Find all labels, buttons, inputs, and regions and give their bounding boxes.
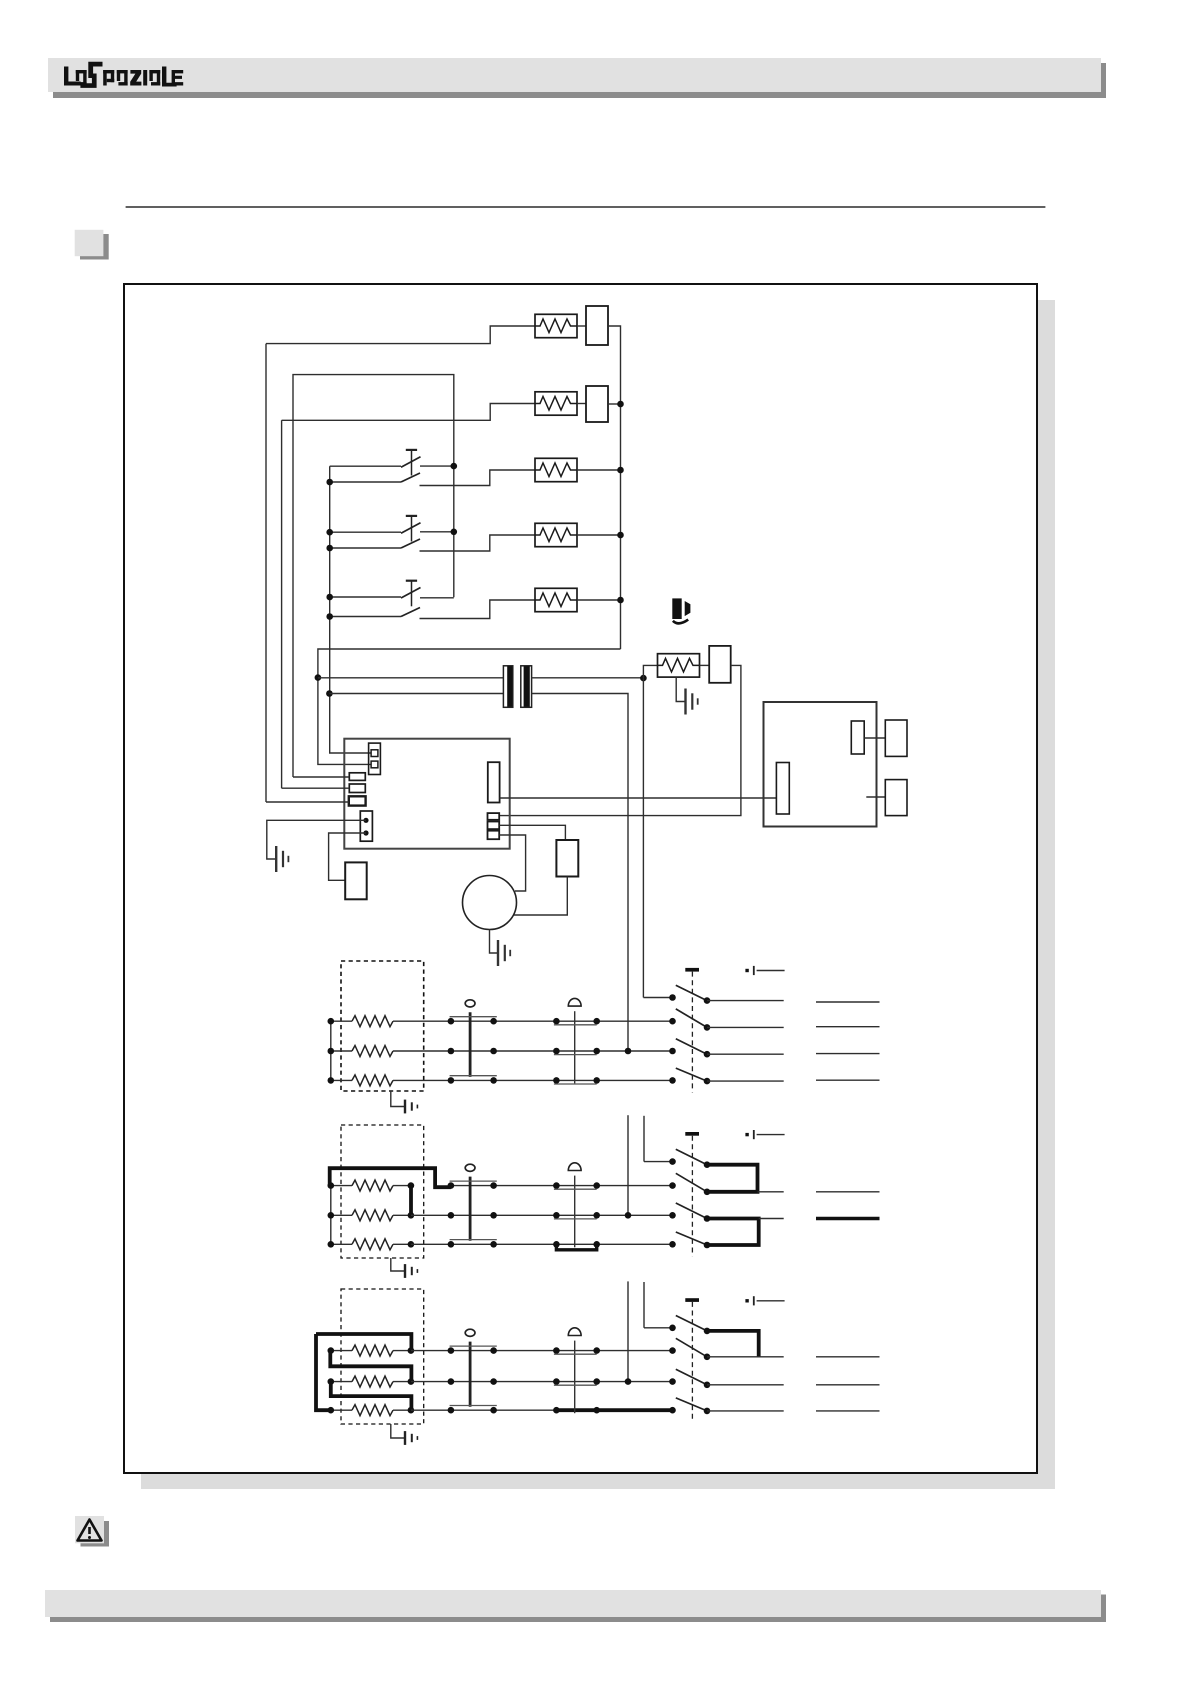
thermostat S3 <box>406 580 417 582</box>
contactor pole 0 G2 <box>669 1158 676 1165</box>
wire feeder-L G2 <box>643 1116 645 1162</box>
contactor pole 3 G3 <box>669 1407 676 1414</box>
wire K2 to ground <box>267 820 366 859</box>
bold row3 G3 <box>556 1408 672 1412</box>
node bus-R5 <box>617 597 624 604</box>
heater dashed box G1 <box>341 961 424 1091</box>
resistor G3-E3 <box>331 1409 352 1411</box>
node G1-E2 left <box>328 1048 335 1055</box>
capacitor plate 1 <box>503 666 512 708</box>
contactor bar G1 <box>685 968 699 972</box>
contactor pole 3 G2 <box>669 1241 676 1248</box>
wire motor ground stem <box>490 930 498 954</box>
pcb control board <box>344 739 509 849</box>
diagram frame shadow <box>141 300 1055 1489</box>
dome bold bridge row3 G2 <box>556 1244 596 1250</box>
resistor R6 <box>658 654 700 677</box>
box B2 <box>586 386 608 422</box>
node G1-E3 left <box>328 1077 335 1084</box>
ground G4 motor <box>497 940 499 966</box>
wire S3 upper left <box>330 596 401 598</box>
warning icon box <box>75 1516 104 1543</box>
wire R2-B2 <box>577 403 586 405</box>
wire switch-common feed <box>293 375 454 777</box>
wire output row2 G2 <box>759 1218 784 1220</box>
box O1 <box>885 720 907 756</box>
wire B6 loop to PCB <box>499 665 741 815</box>
node G2-E1 left <box>328 1182 335 1189</box>
node feeder-N on row2 G1 <box>625 1048 632 1055</box>
contactor link dashed G3 <box>691 1302 693 1422</box>
wire row2 G2 <box>451 1214 673 1216</box>
connector K1 <box>369 743 381 774</box>
wire row3 G1 <box>451 1079 673 1081</box>
wire TB-b to O1 <box>864 737 885 739</box>
ground G3 group1 <box>391 1091 404 1107</box>
bold link E3L return G3 <box>316 1334 330 1410</box>
warning icon shadow <box>81 1521 110 1547</box>
section square <box>75 230 104 256</box>
wire TB to O2 <box>866 796 885 798</box>
node S1 lower <box>326 479 333 486</box>
wire S2 lower contact to R4 <box>420 535 536 551</box>
supply stubs G1 <box>816 1001 880 1003</box>
supply stub row2 bold G2 <box>816 1217 880 1220</box>
resistor G1-E3 <box>331 1079 352 1081</box>
wire S1 lower contact to R3 <box>420 470 536 486</box>
wire cap line upper right <box>532 677 644 679</box>
wire S1 upper left <box>330 465 401 467</box>
node G2-E1 right <box>408 1182 415 1189</box>
wire S1 lower left <box>330 481 401 483</box>
footer bar shadow <box>50 1595 1106 1623</box>
terminal TB-b <box>851 721 864 754</box>
bold feed top G3 <box>316 1334 411 1351</box>
contactor pole 2 G1 <box>669 1048 676 1055</box>
wire bus S to K1 <box>330 466 371 753</box>
plug symbol G2 <box>745 1133 748 1136</box>
pcb connector R <box>488 762 500 802</box>
contactor link dashed G2 <box>691 1136 693 1257</box>
motor capacitor C1 <box>556 840 578 877</box>
wire into A <box>293 776 349 778</box>
wire row2 G1 <box>451 1050 673 1052</box>
supply stubs G3 <box>816 1356 880 1358</box>
wire outputs G3 <box>707 1356 784 1358</box>
wire row2 G3 <box>451 1381 673 1383</box>
wire R6-B6 <box>700 664 710 666</box>
wire bundle L1 vertical <box>265 344 267 802</box>
dome bridge row2 G1 <box>554 1054 597 1056</box>
wire r3 to motor <box>499 835 525 891</box>
node S3 lower <box>326 613 333 620</box>
lamp connector G1 <box>465 1000 475 1007</box>
lamp bridge row3 G1 <box>450 1075 497 1077</box>
pcb connector r1 <box>488 813 500 820</box>
dome connector G1 <box>568 998 581 1006</box>
wire row1 G3 <box>451 1350 673 1352</box>
wire R6 feed <box>643 665 657 678</box>
bold jumper rows0-1 G2 <box>707 1165 758 1192</box>
box B6 <box>709 646 731 683</box>
resistor G3-E2 <box>331 1381 352 1383</box>
node feeder-N on row2 G2 <box>625 1212 632 1219</box>
wire feeder-N G3 <box>627 1281 629 1381</box>
wire S3 lower left <box>330 616 401 618</box>
connector A <box>349 773 365 781</box>
diagram frame <box>124 284 1037 1473</box>
node cap line 2 <box>326 690 333 697</box>
node G3-E2 right <box>408 1378 415 1385</box>
node G3-E1 left <box>328 1347 335 1354</box>
resistor R5 <box>535 588 577 611</box>
wire R1 feed jog <box>266 326 535 344</box>
contactor bar G2 <box>685 1132 699 1136</box>
contactor pole 0 G1 <box>669 994 676 1001</box>
wire E3 to lamp G2 <box>411 1243 451 1245</box>
logo LaSpaziale <box>64 62 183 88</box>
wire row3 G2 <box>451 1243 673 1245</box>
bold feed wire G2 <box>330 1168 451 1187</box>
resistor R4 <box>535 523 577 546</box>
wire G3-E1 to lamp <box>411 1350 451 1352</box>
wire G3-E2 to lamp <box>411 1381 451 1383</box>
node S2-common <box>451 529 458 536</box>
box O2 <box>885 780 907 816</box>
relay RL <box>345 862 367 899</box>
supply stub row1 G2 <box>816 1191 880 1193</box>
wire R3 to bus <box>577 469 621 471</box>
wire S2 lower left <box>330 547 401 549</box>
resistor G2-E1 <box>331 1185 352 1187</box>
buzzer <box>672 598 681 619</box>
heater dashed box G2 <box>341 1125 424 1258</box>
contactor outputs G1 <box>707 1000 784 1002</box>
node bus-R4 <box>617 532 624 539</box>
dome bridge row1 G2 <box>554 1188 597 1190</box>
contactor pole 1 G2 <box>669 1182 676 1189</box>
bold jumper row0-1 G3 <box>707 1331 759 1357</box>
wire bundle L2 vertical <box>281 420 283 788</box>
wire S2 upper contact <box>420 531 454 533</box>
warning triangle <box>78 1520 102 1541</box>
heater dashed box G3 <box>341 1289 424 1424</box>
resistor R2 <box>535 392 577 415</box>
wire S2 upper left <box>330 531 401 533</box>
node G3-E3 right <box>408 1407 415 1414</box>
node S3 upper <box>326 594 333 601</box>
wire G3-E3 to lamp <box>411 1409 451 1411</box>
connector B <box>349 784 365 793</box>
header bar shadow <box>53 63 1106 98</box>
wire feeder-L G3 <box>643 1282 645 1328</box>
lamp bridge row1 G3 <box>450 1345 497 1347</box>
lamp connector G3 <box>465 1329 475 1336</box>
connector C <box>349 796 366 805</box>
node G3-E3 left <box>328 1407 335 1414</box>
node G3-E2 left <box>328 1378 335 1385</box>
contactor pole 0 G3 <box>669 1325 676 1332</box>
plug symbol G1 <box>745 969 748 972</box>
dome bridge row2 G3 <box>554 1384 597 1386</box>
wire K2 to relay <box>329 833 366 880</box>
resistor R3 <box>535 458 577 481</box>
wire cap line lower left <box>329 693 503 695</box>
thermostat S2 <box>406 515 417 517</box>
dome bridge row1 G1 <box>554 1024 597 1026</box>
contactor pole 3 G1 <box>669 1077 676 1084</box>
wire into B <box>282 787 350 789</box>
node feeder-N on row2 G3 <box>625 1378 632 1385</box>
wire R5 to bus <box>577 599 621 601</box>
separator rule <box>126 206 1046 208</box>
ground G2 <box>684 689 686 715</box>
bold link E1-E2 G2 <box>409 1186 413 1216</box>
lamp bridge row3 G2 <box>450 1239 497 1241</box>
node R6 tap <box>640 675 647 682</box>
resistor G2-E3 <box>331 1243 352 1245</box>
wire R to terminal block <box>500 797 777 799</box>
lamp connector G2 <box>465 1164 475 1171</box>
wire R4 to bus <box>577 534 621 536</box>
bold link E1L-E2R G3 <box>330 1351 411 1382</box>
wire bundle L4 vertical to K1 <box>318 678 371 765</box>
pcb connector r2 <box>488 822 500 830</box>
wire B2 to right bus <box>608 403 621 405</box>
motor M <box>463 876 517 930</box>
wire E2 to lamp G2 <box>411 1214 451 1216</box>
node cap line 1 <box>315 674 322 681</box>
lamp bridge row1 G2 <box>450 1180 497 1182</box>
node G2-E2 left <box>328 1212 335 1219</box>
plug symbol G3 <box>745 1299 748 1302</box>
contactor link dashed G1 <box>691 972 693 1093</box>
wire row3 G3 <box>451 1409 557 1411</box>
wire into C <box>266 801 349 803</box>
dome bridge row3 G1 <box>554 1083 597 1085</box>
node G3-E1 right <box>408 1347 415 1354</box>
node S1-common <box>451 463 458 470</box>
connector K2 <box>360 811 372 841</box>
resistor R1 <box>535 314 577 337</box>
dome connector G2 <box>568 1163 581 1171</box>
node G2-E2 right <box>408 1212 415 1219</box>
wire S3 lower contact to R5 <box>420 600 536 619</box>
dome connector G3 <box>568 1328 581 1336</box>
node S2 lower <box>326 545 333 552</box>
contactor bar G3 <box>685 1298 699 1302</box>
resistor G3-E1 <box>331 1350 352 1352</box>
capacitor plate 2 <box>521 666 532 708</box>
wire r2 to motor cap <box>499 825 565 840</box>
wire R2 feed jog <box>282 404 535 421</box>
warning exclamation <box>88 1527 91 1534</box>
section square shadow <box>80 234 109 260</box>
dome bridge row2 G2 <box>554 1218 597 1220</box>
lamp bridge row3 G3 <box>450 1405 497 1407</box>
node G2-E3 right <box>408 1241 415 1248</box>
wire R1-B1 <box>577 325 586 327</box>
wire feeder A vertical <box>642 678 644 997</box>
ground G1 <box>275 846 277 872</box>
ground G6 group3 <box>391 1424 404 1438</box>
wire B1 to right bus <box>608 326 621 649</box>
node G2-E3 left <box>328 1241 335 1248</box>
wire row1 G2 <box>451 1185 673 1187</box>
ground G5 group2 <box>391 1258 404 1271</box>
dome bridge row1 G3 <box>554 1353 597 1355</box>
node bus-B2 <box>617 401 624 408</box>
wire S1 upper contact <box>420 465 454 467</box>
footer bar <box>45 1590 1101 1617</box>
contactor pole 2 G2 <box>669 1212 676 1219</box>
wire cap line lower right <box>532 694 628 1052</box>
wire S3 upper contact <box>420 597 454 599</box>
resistor G1-E2 <box>331 1050 352 1052</box>
resistor G1-E1 <box>331 1020 352 1022</box>
wire row1 G1 <box>451 1020 673 1022</box>
node bus-R3 <box>617 467 624 474</box>
header bar <box>48 58 1101 92</box>
pcb connector r3 <box>488 831 500 840</box>
wire cap to motor <box>513 877 568 916</box>
wire output row1 G2 <box>758 1191 784 1193</box>
wire feeder-N G2 <box>627 1115 629 1215</box>
wire cap line upper left <box>318 677 504 679</box>
contactor pole 1 G3 <box>669 1347 676 1354</box>
node G1-E1 left <box>328 1018 335 1025</box>
contactor pole 1 G1 <box>669 1018 676 1025</box>
terminal block TB <box>764 702 877 827</box>
contactor pole 2 G3 <box>669 1378 676 1385</box>
wire left bus G2 <box>330 1186 332 1245</box>
group 1 heating circuit <box>0 0 1 1</box>
terminal TB-a <box>776 763 789 815</box>
bold link E2L-E3R G3 <box>331 1382 412 1411</box>
lamp bridge row1 G1 <box>450 1016 497 1018</box>
bold jumper rows2-3 G2 <box>707 1219 759 1246</box>
thermostat S1 <box>406 449 417 451</box>
resistor G2-E2 <box>331 1214 352 1216</box>
wire right-bus return <box>318 649 621 678</box>
wire feeder-L G1 <box>643 997 672 999</box>
box B1 <box>586 306 608 345</box>
ground G2 stem <box>676 677 685 701</box>
wire left bus G1 <box>330 1021 332 1080</box>
node S2 upper <box>326 529 333 536</box>
